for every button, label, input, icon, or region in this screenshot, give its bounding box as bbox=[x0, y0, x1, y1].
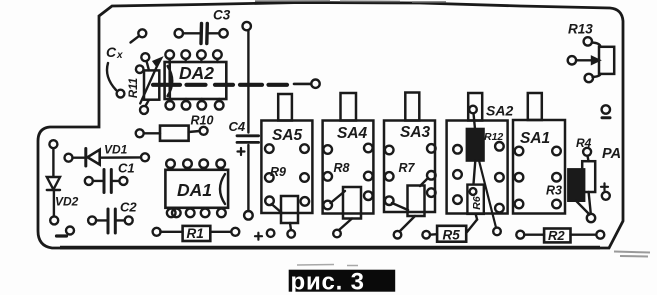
svg-text:DA1: DA1 bbox=[177, 180, 212, 200]
capacitor C4 bbox=[229, 119, 259, 155]
svg-text:R8: R8 bbox=[334, 161, 350, 175]
node junction pad below R3 R4 bbox=[587, 214, 595, 222]
svg-text:R9: R9 bbox=[270, 165, 286, 179]
svg-text:R3: R3 bbox=[546, 184, 562, 198]
node plus pad below SA5 bbox=[255, 229, 274, 239]
resistor R12 bbox=[467, 113, 504, 227]
capacitor C2 bbox=[88, 200, 137, 234]
trimmer R13 bbox=[568, 22, 615, 83]
op-amp DA2 bbox=[165, 50, 227, 109]
svg-text:x: x bbox=[116, 50, 123, 61]
scan noise above caption bbox=[297, 265, 358, 266]
switch SA2 bbox=[447, 93, 514, 214]
svg-text:рис. 3: рис. 3 bbox=[291, 269, 365, 295]
svg-text:R11: R11 bbox=[128, 78, 140, 98]
svg-text:C2: C2 bbox=[120, 200, 137, 215]
svg-text:PA: PA bbox=[602, 146, 621, 162]
svg-text:R7: R7 bbox=[399, 161, 416, 175]
resistor R6 bbox=[467, 185, 483, 220]
wire C4 vertical bbox=[243, 22, 253, 220]
node pad below SA2 bbox=[493, 228, 501, 236]
resistor R9 bbox=[270, 165, 298, 238]
wire bottom edge emphasis bbox=[60, 246, 600, 250]
capacitor C3 bbox=[175, 8, 231, 44]
diode VD1 bbox=[65, 143, 150, 167]
resistor R3 bbox=[546, 169, 590, 214]
svg-text:R13: R13 bbox=[568, 22, 593, 37]
svg-text:C: C bbox=[106, 44, 117, 60]
switch SA5 bbox=[261, 94, 312, 213]
svg-text:R10: R10 bbox=[191, 114, 214, 128]
capacitor Cx terminals bbox=[106, 29, 146, 97]
wire to jumper pad bbox=[294, 83, 311, 86]
DA2 pins top bbox=[165, 50, 174, 59]
svg-text:DA2: DA2 bbox=[179, 63, 214, 83]
resistor R4 bbox=[576, 136, 595, 214]
svg-text:R5: R5 bbox=[443, 228, 461, 243]
capacitor C1 bbox=[85, 161, 135, 193]
svg-text:VD2: VD2 bbox=[55, 195, 79, 209]
board outline bbox=[38, 3, 623, 249]
resistor R5 bbox=[422, 220, 477, 243]
switch SA3 bbox=[384, 93, 436, 213]
svg-text:SA3: SA3 bbox=[400, 124, 431, 141]
svg-text:R4: R4 bbox=[576, 136, 592, 150]
resistor R10 bbox=[136, 114, 214, 141]
op-amp DA1 bbox=[165, 159, 228, 217]
svg-text:R2: R2 bbox=[548, 228, 565, 243]
node jumper end bbox=[311, 80, 319, 88]
svg-text:C1: C1 bbox=[118, 161, 135, 176]
svg-text:SA1: SA1 bbox=[520, 130, 550, 147]
DA2 pins bottom bbox=[166, 101, 175, 110]
diode VD2 bbox=[47, 140, 79, 224]
svg-text:C4: C4 bbox=[229, 119, 246, 134]
wire DA2 pin1 vertical bbox=[168, 59, 171, 101]
svg-text:R1: R1 bbox=[187, 226, 204, 241]
resistor R7 bbox=[392, 161, 427, 239]
svg-text:VD1: VD1 bbox=[104, 143, 128, 157]
DA1 pins bottom bbox=[167, 209, 176, 218]
svg-text:SA4: SA4 bbox=[337, 125, 368, 142]
trimmer R11 bbox=[128, 53, 161, 114]
svg-text:R12: R12 bbox=[484, 131, 503, 143]
node plus terminal PA bbox=[601, 183, 610, 200]
dashed jumper wire bbox=[153, 83, 287, 87]
resistor R1 bbox=[153, 226, 240, 241]
resistor R2 bbox=[516, 228, 604, 243]
svg-text:SA2: SA2 bbox=[486, 103, 513, 119]
node minus terminal top right bbox=[602, 105, 610, 117]
svg-text:C3: C3 bbox=[213, 8, 231, 23]
resistor R8 bbox=[331, 161, 362, 237]
scan noise bottom right bbox=[614, 252, 650, 257]
svg-text:SA5: SA5 bbox=[272, 127, 303, 144]
node minus terminal bottom-left bbox=[57, 227, 75, 237]
scan noise top edge bbox=[255, 1, 446, 2]
caption рис. 3 bbox=[289, 269, 396, 295]
switch SA4 bbox=[323, 93, 374, 214]
switch SA1 bbox=[513, 93, 565, 214]
svg-text:R6: R6 bbox=[471, 196, 483, 210]
DA1 pins top bbox=[166, 159, 175, 168]
